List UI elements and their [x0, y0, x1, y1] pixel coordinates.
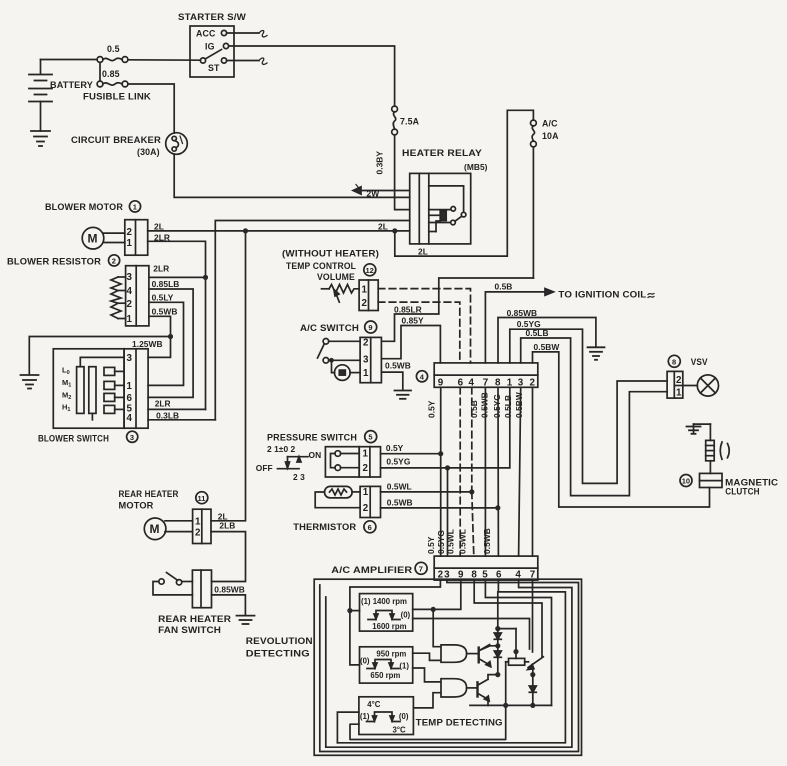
wire amp pin7 down — [532, 580, 534, 652]
connector hook ACC — [259, 31, 267, 37]
svg-text:4: 4 — [515, 570, 521, 581]
svg-text:10: 10 — [682, 477, 690, 486]
node 2LR junction — [203, 275, 208, 280]
svg-text:0.5WL: 0.5WL — [387, 481, 412, 491]
wire dashed conn4 pin6 down to amp pin9 — [459, 387, 461, 556]
pressure switch connector — [359, 447, 380, 477]
svg-text:REAR HEATER: REAR HEATER — [119, 489, 179, 499]
svg-text:0.5Y: 0.5Y — [386, 443, 404, 453]
diode D1 — [494, 629, 501, 646]
wire bus to box1 — [350, 610, 360, 612]
svg-text:1.25WB: 1.25WB — [132, 339, 163, 349]
hysteresis glyph box2 — [367, 660, 399, 669]
wire 0.85LB — [148, 289, 193, 397]
relay coil — [440, 210, 446, 221]
illumination lamp — [332, 360, 361, 380]
relay contact lower — [451, 220, 456, 225]
svg-text:0.5BW: 0.5BW — [514, 392, 524, 418]
svg-text:0.85: 0.85 — [102, 69, 120, 79]
svg-text:(0): (0) — [360, 657, 370, 666]
circled 11 — [196, 492, 208, 504]
svg-text:3°C: 3°C — [393, 726, 406, 735]
rear fan switch contacts — [153, 573, 192, 595]
node rail left — [503, 703, 508, 708]
svg-text:M: M — [150, 522, 160, 536]
wire resistor left to rail — [505, 662, 507, 706]
heater relay box — [410, 173, 471, 244]
relay pivot — [461, 212, 466, 217]
wire 0.5WB thermistor pin2 — [381, 507, 498, 509]
circled 4 — [416, 371, 427, 382]
svg-text:A/C AMPLIFIER: A/C AMPLIFIER — [331, 565, 413, 575]
svg-text:2LR: 2LR — [153, 264, 169, 274]
svg-text:0.5WB: 0.5WB — [387, 497, 413, 507]
svg-text:2: 2 — [127, 227, 133, 238]
AND gate G1 — [441, 645, 467, 662]
wire 0.5YG pin1 to VSV pin2 — [510, 329, 667, 483]
wire box1 aux feed — [413, 619, 530, 650]
svg-text:(0): (0) — [399, 712, 409, 721]
temp control volume resistor — [322, 285, 360, 294]
wire fuse 0.5 to starter switch — [128, 59, 201, 61]
text labels blower — [7, 202, 179, 444]
relay internal wiring — [429, 186, 464, 232]
text labels bottom — [119, 433, 536, 735]
svg-text:0.5LB: 0.5LB — [526, 328, 549, 338]
wire box3 to gate2 input2 — [413, 693, 441, 708]
svg-text:TEMP DETECTING: TEMP DETECTING — [416, 718, 503, 728]
contact M1 — [104, 381, 124, 389]
wire 0.3LB switch row4 — [148, 419, 215, 421]
rear heater motor connector — [193, 509, 211, 543]
svg-text:A/C: A/C — [542, 119, 558, 129]
switch lever contact — [528, 657, 544, 670]
ground battery — [31, 131, 50, 146]
blower resistor connector — [126, 266, 149, 326]
svg-text:2 1±0 2: 2 1±0 2 — [267, 444, 296, 454]
node 0.5Y tee — [438, 451, 443, 456]
svg-text:1: 1 — [363, 487, 369, 498]
wire link between fuses — [99, 62, 101, 81]
blower switch connector band — [124, 349, 148, 428]
relay contact upper — [451, 207, 456, 212]
svg-text:BLOWER MOTOR: BLOWER MOTOR — [45, 202, 124, 212]
node box1 output — [431, 607, 436, 612]
fusible link 0.5 — [97, 57, 128, 63]
magnetic clutch coil — [706, 424, 715, 461]
svg-text:12: 12 — [366, 266, 374, 275]
temp control wiper arrow — [334, 290, 339, 303]
wire conn4 pin9 down to amp pin2 — [440, 387, 442, 556]
wire contact upper to pin2 — [329, 340, 360, 342]
wire Q1 collector — [479, 646, 498, 651]
svg-text:8: 8 — [672, 357, 676, 366]
node 2L branch rear heater — [243, 228, 248, 233]
node mid diode — [495, 643, 500, 648]
wire 0.5WL thermistor pin1 — [381, 491, 472, 493]
node lamp tap — [329, 358, 334, 363]
svg-text:2L: 2L — [378, 222, 388, 232]
wire Q2 emitter down — [487, 699, 489, 705]
wire amp pin5 nest — [485, 580, 551, 705]
wire conn4 pin8 down to amp pin6 — [497, 387, 499, 556]
node Q2 collector tie — [495, 672, 500, 677]
circled 2 — [109, 255, 120, 266]
svg-text:1: 1 — [362, 285, 368, 296]
rear heater fan switch connector — [192, 570, 211, 608]
wire 0.85LR a/c switch pin2 up to fuse — [381, 278, 533, 341]
wire A/C fuse down to 0.85LR — [532, 147, 534, 278]
svg-text:0.5WL: 0.5WL — [458, 529, 468, 554]
svg-text:1: 1 — [676, 388, 682, 399]
wire 2L blower feed into relay — [148, 230, 410, 232]
wire conn4 pin7 down to amp pin5 — [484, 387, 486, 556]
circled 6 — [364, 521, 376, 533]
ground A/C switch — [395, 391, 412, 399]
common rail — [470, 704, 552, 706]
wire 0.5LY — [148, 302, 183, 385]
svg-text:2LB: 2LB — [219, 521, 235, 531]
svg-text:BLOWER SWITCH: BLOWER SWITCH — [38, 434, 109, 444]
terminal IG — [223, 43, 228, 48]
wire pin3 to wiper1 — [80, 357, 124, 366]
svg-text:0.85WB: 0.85WB — [214, 584, 245, 594]
svg-text:4: 4 — [127, 286, 133, 297]
svg-text:CLUTCH: CLUTCH — [725, 487, 760, 497]
svg-text:1: 1 — [133, 203, 137, 212]
switch contact — [200, 58, 205, 63]
wire box1 output to gate1 — [433, 609, 441, 646]
svg-text:3: 3 — [127, 272, 133, 283]
svg-text:2L: 2L — [418, 247, 428, 257]
svg-text:950 rpm: 950 rpm — [376, 650, 406, 659]
wire 0.5B pin7 to ignition coil — [485, 289, 654, 363]
svg-text:0.5B: 0.5B — [469, 400, 479, 418]
svg-text:HEATER RELAY: HEATER RELAY — [402, 148, 482, 158]
relay lever — [455, 216, 462, 221]
node 0.5WL tee — [469, 489, 474, 494]
hysteresis glyph box3 — [367, 712, 401, 722]
wire conn4 pin3 down to amp pin4 — [519, 387, 521, 556]
svg-text:2LR: 2LR — [154, 233, 170, 243]
svg-text:6: 6 — [368, 523, 372, 532]
starter S/W box — [190, 26, 234, 77]
svg-text:BLOWER RESISTOR: BLOWER RESISTOR — [7, 257, 102, 267]
svg-text:BATTERY: BATTERY — [50, 80, 93, 90]
magnetic clutch body — [700, 461, 723, 488]
wire ST stub — [227, 60, 259, 62]
wire bus B box3 — [337, 712, 359, 743]
transistor Q1 — [467, 645, 491, 667]
svg-text:0.3BY: 0.3BY — [375, 151, 385, 175]
temp control volume connector — [359, 280, 378, 311]
svg-text:2: 2 — [676, 375, 682, 386]
circled 7 — [415, 562, 427, 574]
svg-text:DETECTING: DETECTING — [246, 649, 310, 659]
wire box2 to gate1 input2 — [413, 653, 441, 660]
relay connector band — [418, 173, 420, 244]
svg-text:1: 1 — [127, 381, 133, 392]
node rail right — [530, 703, 535, 708]
VSV valve symbol — [683, 375, 719, 396]
svg-text:8: 8 — [471, 570, 477, 581]
svg-text:0.85Y: 0.85Y — [402, 315, 425, 325]
contact Hi — [104, 405, 124, 413]
svg-text:9: 9 — [368, 323, 372, 332]
wire amp pin8 to lever — [474, 580, 542, 656]
svg-text:1: 1 — [363, 368, 369, 379]
resistor element — [111, 277, 126, 319]
wire 0.5WB pin1 to ground — [381, 372, 402, 390]
svg-text:2: 2 — [195, 528, 201, 539]
ground arrow 2W — [353, 185, 410, 195]
wire wiper2 to row4 — [91, 413, 93, 419]
svg-text:ACC: ACC — [196, 29, 216, 39]
svg-text:REAR HEATER: REAR HEATER — [158, 614, 232, 624]
svg-text:0.85LB: 0.85LB — [152, 279, 180, 289]
svg-text:2: 2 — [363, 338, 369, 349]
svg-text:0.85WB: 0.85WB — [507, 308, 538, 318]
text labels top-left — [50, 12, 559, 257]
pressure switch contacts — [331, 451, 360, 471]
svg-text:3: 3 — [130, 433, 134, 442]
VSV connector — [667, 371, 683, 398]
node 0.5WB tee — [495, 505, 500, 510]
fusible link 0.85 — [97, 81, 128, 87]
svg-text:(MB5): (MB5) — [464, 162, 488, 172]
wire tie to Q2 collector — [488, 675, 498, 680]
circuit breaker (30A) — [166, 133, 188, 155]
circled 9 — [365, 321, 377, 333]
wire 0.5YG branch down to amp pin3 — [447, 468, 449, 556]
wire contact lower to pin3 — [329, 359, 360, 361]
thermistor element — [315, 486, 360, 507]
wire battery to fuse — [41, 59, 98, 61]
text labels center — [282, 249, 779, 497]
svg-text:0.5YG: 0.5YG — [492, 394, 502, 418]
svg-text:OFF: OFF — [256, 463, 273, 473]
svg-text:3: 3 — [363, 354, 369, 365]
svg-text:0.5BW: 0.5BW — [534, 342, 560, 352]
svg-text:REVOLUTION: REVOLUTION — [246, 636, 313, 646]
wire dashed pin2 to connector4 pin6 — [378, 302, 460, 363]
svg-text:2: 2 — [363, 463, 369, 474]
svg-text:PRESSURE SWITCH: PRESSURE SWITCH — [267, 433, 357, 443]
svg-text:0.85LR: 0.85LR — [394, 304, 422, 314]
pressure switch box — [325, 447, 359, 477]
ground rear fan switch — [237, 616, 255, 624]
ground 0.85WB — [588, 347, 605, 360]
wire box2 to gate2 input1 — [413, 668, 441, 682]
wire amp pin3 nest — [320, 580, 579, 751]
svg-text:1: 1 — [127, 314, 133, 325]
A/C switch contact upper — [323, 339, 329, 345]
wire conn4 pin2 down to amp pin7 — [532, 387, 534, 556]
svg-text:0.5: 0.5 — [107, 44, 120, 54]
node diode top — [495, 626, 500, 631]
A/C amplifier connector 7 — [434, 556, 538, 580]
circled 8 — [668, 355, 680, 367]
svg-text:2: 2 — [362, 298, 368, 309]
wire box3 lower loop — [350, 705, 506, 739]
svg-text:650 rpm: 650 rpm — [370, 671, 400, 680]
svg-text:STARTER S/W: STARTER S/W — [178, 12, 247, 22]
svg-text:0.5WB: 0.5WB — [482, 528, 492, 554]
svg-text:9: 9 — [458, 570, 464, 581]
battery — [29, 60, 52, 132]
svg-text:0.5LY: 0.5LY — [152, 293, 174, 303]
circled 12 — [364, 264, 376, 276]
wire 0.5BW pin2 to magnetic clutch — [533, 352, 710, 507]
wire fuse 0.85 to breaker — [128, 84, 174, 133]
svg-text:CIRCUIT BREAKER: CIRCUIT BREAKER — [71, 135, 162, 145]
wire lever zone to diode D3 — [532, 667, 534, 686]
svg-text:0.3LB: 0.3LB — [156, 410, 179, 420]
ground magnetic clutch — [687, 424, 711, 434]
wire diode node to resistor — [498, 629, 519, 659]
wire 2LR resistor row3 — [149, 276, 206, 278]
wire 1.25WB to ground — [29, 337, 170, 375]
svg-text:ST: ST — [208, 63, 220, 73]
A/C amplifier enclosure — [314, 579, 581, 755]
wire 2LR switch row5 — [148, 408, 205, 410]
circled 3 — [127, 431, 138, 442]
svg-text:VSV: VSV — [691, 357, 708, 367]
svg-text:A/C SWITCH: A/C SWITCH — [300, 323, 359, 333]
wire pin6 feed to diode column — [497, 592, 499, 629]
wire 0.85WB pin8 to ground — [498, 318, 596, 363]
svg-text:2: 2 — [112, 257, 116, 266]
wire thermistor tee down to amp pin8 — [472, 492, 474, 556]
fuse A/C 10A — [531, 120, 537, 147]
diode D3 — [529, 686, 536, 705]
svg-text:VOLUME: VOLUME — [317, 272, 355, 282]
node 2L branch relay bottom — [392, 228, 397, 233]
thermistor connector — [360, 486, 380, 517]
svg-text:(1): (1) — [399, 662, 409, 671]
svg-text:IG: IG — [205, 42, 215, 52]
wire breaker to relay — [174, 154, 410, 197]
svg-text:0.5WL: 0.5WL — [445, 529, 455, 554]
pressure hysteresis annotation — [278, 457, 309, 469]
wire 0.5LB pin3 to VSV pin1 — [521, 338, 667, 496]
node 1.25WB junction — [168, 334, 173, 339]
node lever feedback — [530, 672, 535, 677]
svg-text:1600 rpm: 1600 rpm — [372, 622, 406, 631]
svg-text:(1) 1400 rpm: (1) 1400 rpm — [361, 597, 407, 606]
svg-text:0.5Y: 0.5Y — [426, 536, 436, 554]
wire amp pin9 to box1 right — [413, 580, 461, 609]
wire 2L relay bottom rail to A/C fuse — [395, 110, 534, 256]
connector 4 box — [434, 363, 538, 387]
svg-text:5: 5 — [368, 433, 372, 442]
node 0.5YG tee — [445, 465, 450, 470]
wire 2LB rear motor to fan switch — [211, 532, 246, 582]
svg-text:7: 7 — [419, 564, 423, 573]
switch wiper bar 1 — [77, 367, 84, 414]
resistor R1 — [506, 658, 529, 665]
svg-text:FAN SWITCH: FAN SWITCH — [158, 625, 221, 635]
blower motor M — [82, 227, 125, 249]
svg-text:2: 2 — [363, 503, 369, 514]
svg-text:0.5YG: 0.5YG — [386, 457, 410, 467]
svg-text:7.5A: 7.5A — [400, 117, 420, 127]
revolution box 950/650 rpm — [360, 647, 413, 683]
terminal ACC — [221, 30, 226, 35]
fuse 7.5A — [392, 106, 398, 135]
diode D2 — [494, 646, 501, 675]
wire 2LR motor to resistor — [148, 241, 206, 409]
svg-text:(30A): (30A) — [137, 147, 160, 157]
A/C switch lever — [318, 344, 325, 358]
svg-text:2: 2 — [127, 299, 133, 310]
wire ACC stub — [227, 32, 259, 34]
svg-text:0.5LB: 0.5LB — [503, 395, 513, 418]
svg-text:2L: 2L — [154, 221, 164, 231]
magnetic clutch armature — [720, 442, 729, 459]
svg-text:(0): (0) — [401, 611, 411, 620]
wire dashed pin1 to connector4 pin4 — [378, 289, 470, 363]
svg-text:2W: 2W — [367, 189, 380, 199]
svg-text:2LR: 2LR — [155, 398, 171, 408]
svg-text:3: 3 — [444, 570, 450, 581]
connector hook ST — [259, 58, 267, 64]
wire 0.85WB fan switch to ground — [212, 595, 246, 615]
svg-text:THERMISTOR: THERMISTOR — [293, 522, 357, 532]
wire 0.5Y pressure pin1 — [381, 453, 441, 455]
svg-text:6: 6 — [127, 393, 133, 404]
svg-text:0.5YG: 0.5YG — [436, 530, 446, 554]
revolution box 1400/1600 rpm — [360, 594, 413, 632]
svg-text:1: 1 — [127, 238, 133, 249]
svg-text:(1): (1) — [360, 712, 370, 721]
svg-text:TO IGNITION COIL: TO IGNITION COIL — [558, 290, 647, 300]
svg-text:MOTOR: MOTOR — [119, 501, 155, 511]
svg-text:3: 3 — [127, 353, 133, 364]
A/C switch connector — [360, 337, 381, 382]
node bus box1 — [347, 608, 352, 613]
svg-text:ON: ON — [309, 450, 322, 460]
contact Lo — [104, 367, 124, 375]
svg-text:6: 6 — [496, 570, 502, 581]
svg-text:11: 11 — [198, 494, 206, 503]
svg-text:7: 7 — [530, 570, 536, 581]
wire 0.3BY to relay — [395, 135, 410, 210]
svg-text:(WITHOUT HEATER): (WITHOUT HEATER) — [282, 249, 379, 259]
wire 0.5WB resistor — [148, 316, 170, 357]
contact M2 — [104, 393, 124, 401]
circled 10 — [680, 475, 692, 487]
svg-text:M: M — [88, 232, 98, 246]
wire amp pin2 to box1 bus — [350, 580, 441, 665]
svg-text:2 3: 2 3 — [293, 472, 305, 482]
wire amp pin6 nest — [337, 580, 565, 743]
svg-text:0.5Y: 0.5Y — [427, 400, 437, 418]
wire 0.85Y pin3 to connector4 pin9 — [381, 326, 440, 363]
terminal ST — [221, 58, 226, 63]
wire dashed conn4 pin4 down to thermistor tee — [471, 387, 473, 492]
A/C switch contact lower — [323, 358, 329, 364]
switch wiper bar 2 — [89, 367, 96, 414]
wire relay 2L line A to blower switch — [215, 221, 409, 420]
svg-text:4°C: 4°C — [367, 700, 380, 709]
svg-text:10A: 10A — [542, 131, 559, 141]
wire 2L down to rear heater motor — [211, 231, 246, 521]
AND gate G2 — [441, 679, 467, 697]
svg-text:FUSIBLE LINK: FUSIBLE LINK — [83, 92, 152, 102]
svg-text:0.5WB: 0.5WB — [152, 306, 178, 316]
svg-text:1: 1 — [363, 449, 369, 460]
